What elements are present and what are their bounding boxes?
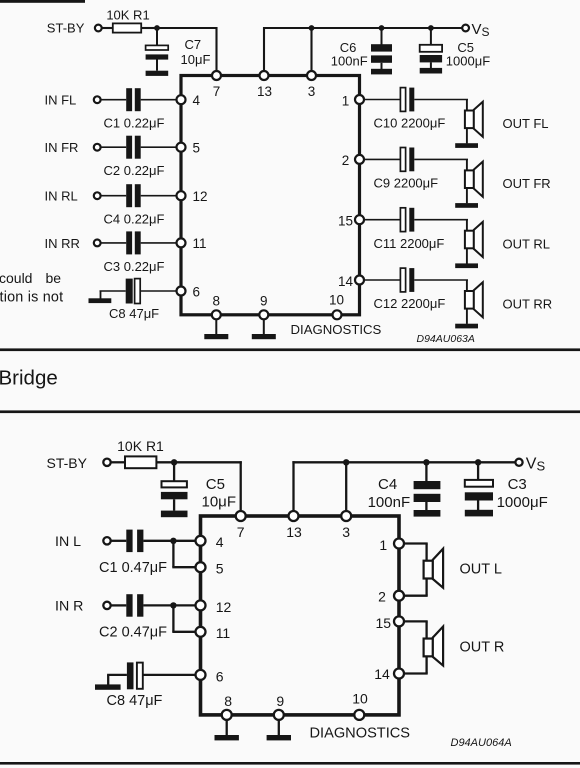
section divider rule upper (0, 348, 580, 351)
pin 4 (bridge left) (196, 536, 206, 546)
pin 10 (bottom) (333, 310, 342, 319)
svg-text:5: 5 (216, 561, 224, 577)
pin 1 (bridge right) (394, 539, 404, 549)
pin 3 (bridge top) (341, 511, 351, 521)
capacitor C5 negative plate (bridge) (161, 492, 188, 499)
terminal IN R (103, 602, 110, 609)
capacitor C4 ground stub (bridge) (425, 502, 427, 510)
svg-text:10K R1: 10K R1 (117, 438, 164, 454)
capacitor C3 stub (bridge) (477, 462, 479, 480)
svg-text:3: 3 (308, 84, 316, 99)
svg-text:10K R1: 10K R1 (106, 8, 149, 23)
svg-text:10: 10 (352, 690, 368, 706)
svg-text:6: 6 (193, 284, 201, 299)
junction ST-BY/C7 node (154, 25, 160, 31)
wire junction to pin7 drop (bridge) (174, 461, 242, 463)
capacitor C2 plate 1 (126, 136, 132, 159)
svg-text:OUT L: OUT L (460, 562, 502, 578)
svg-text:C2 0.22μF: C2 0.22μF (104, 163, 165, 178)
resistor R1 (113, 23, 141, 32)
capacitor C4 plate 2 (bridge) (414, 494, 441, 502)
terminal Vs (bridge) (515, 459, 522, 466)
capacitor C5 ground stub (430, 62, 432, 68)
svg-text:C9 2200μF: C9 2200μF (374, 176, 439, 191)
svg-text:3: 3 (342, 524, 350, 540)
speaker OUT R frame (424, 639, 433, 657)
capacitor C7 ground stub (156, 60, 158, 71)
capacitor C1 plate 2 (135, 88, 141, 111)
wire ground riser C8 (100, 291, 102, 299)
svg-text:ST-BY: ST-BY (47, 20, 85, 35)
pin 3 (top) (307, 71, 316, 80)
pin 14 (bridge right) (394, 669, 404, 679)
wire Vs supply rail (312, 27, 463, 29)
wire drop to pin 7 (bridge) (240, 461, 242, 511)
speaker OUT FL frame (465, 111, 474, 129)
wire IN FR to coupling cap (101, 146, 127, 148)
svg-text:6: 6 (216, 668, 224, 684)
pin 11 (bridge left) (196, 627, 206, 637)
wire speaker drop (466, 100, 468, 144)
capacitor C6 plate 2 (371, 55, 392, 62)
svg-text:couldbe: couldbe (0, 270, 61, 286)
capacitor C10 negative plate (409, 88, 414, 112)
wire ST-BY to R1 (bridge) (111, 461, 125, 463)
capacitor C2 plate 2 (135, 136, 141, 159)
cropped page rule (top-left artifact) (0, 0, 85, 3)
svg-text:9: 9 (260, 294, 268, 309)
capacitor C3 negative plate (bridge) (465, 492, 493, 500)
wire cap to junction (143, 604, 173, 606)
svg-text:15: 15 (376, 615, 392, 631)
svg-text:C11 2200μF: C11 2200μF (374, 236, 445, 251)
wire cap to pin 5 (141, 146, 178, 148)
capacitor C11 negative plate (409, 208, 414, 232)
capacitor C12 negative plate (409, 268, 414, 292)
capacitor C3 plate 2 (135, 231, 141, 254)
svg-text:OUT FR: OUT FR (503, 176, 551, 191)
wire pin 1 to cap (364, 99, 401, 101)
svg-text:15: 15 (338, 214, 353, 229)
capacitor C1 plate 1 (bridge) (126, 530, 132, 553)
svg-text:14: 14 (338, 274, 354, 289)
wire R1 to junction (bridge) (156, 461, 174, 463)
wire cap to speaker (414, 99, 468, 101)
wire pin 14 to cap (364, 279, 401, 281)
wire cap to pin 12 (141, 195, 178, 197)
speaker OUT R cone (433, 627, 443, 666)
capacitor C7 positive plate (146, 45, 169, 50)
wire pin3 riser (bridge) (345, 462, 347, 511)
wire junction to pin 12 (173, 604, 195, 606)
pin 2 (bridge right) (394, 591, 404, 601)
wire IN RL to coupling cap (101, 195, 127, 197)
capacitor C7 stub (156, 28, 158, 45)
wire junction to pin 4 (173, 540, 195, 542)
capacitor C8 negative plate (bridge) (127, 662, 134, 689)
wire pin 9 ground stub (bridge) (278, 720, 280, 736)
capacitor C5 positive plate (420, 45, 442, 52)
pin 15 (bridge right) (394, 616, 404, 626)
pin 4 (left) (177, 95, 186, 104)
terminal IN FL (94, 96, 101, 103)
capacitor C5 positive plate (bridge) (162, 481, 187, 487)
junction above pin 3 (309, 25, 315, 31)
section divider rule lower (0, 410, 580, 413)
svg-text:C10 2200μF: C10 2200μF (374, 116, 446, 131)
svg-text:DIAGNOSTICS: DIAGNOSTICS (310, 725, 411, 741)
capacitor C12 positive plate (400, 268, 405, 292)
svg-text:2: 2 (342, 153, 350, 168)
svg-text:4: 4 (216, 534, 224, 550)
wire cap to speaker (414, 219, 468, 221)
svg-text:OUT RL: OUT RL (503, 236, 550, 251)
wire pin13 riser (bridge) (292, 461, 294, 511)
svg-text:8: 8 (213, 294, 221, 309)
terminal IN RL (94, 192, 101, 199)
wire pin 14 to speaker (404, 672, 428, 674)
svg-text:9: 9 (276, 693, 284, 709)
wire IN FL to coupling cap (101, 99, 127, 101)
svg-text:C5: C5 (206, 476, 225, 493)
pin 7 (top) (212, 71, 221, 80)
ground below pin 8 (204, 334, 228, 339)
svg-text:1000μF: 1000μF (497, 494, 548, 511)
wire speaker drop (466, 159, 468, 203)
junction ST-BY/C5 node (bridge) (171, 459, 177, 465)
ground below pin 9 (bridge) (267, 735, 291, 740)
svg-text:C7: C7 (185, 37, 202, 52)
svg-text:1000μF: 1000μF (446, 54, 490, 69)
speaker OUT RR cone (474, 282, 483, 317)
wire pin 9 ground stub (263, 319, 265, 334)
svg-text:C8 47μF: C8 47μF (107, 693, 163, 709)
pin 14 (right) (355, 276, 364, 285)
capacitor C4 plate 1 (126, 184, 132, 207)
wire Vs rail (bridge) (346, 461, 515, 463)
wire cap to pin 11 (141, 242, 178, 244)
junction IN L split (170, 538, 176, 544)
pin 7 (bridge top) (236, 511, 246, 521)
ground below OUT FR speaker (455, 203, 478, 208)
svg-text:1: 1 (379, 537, 387, 553)
ground at C8 (89, 298, 112, 303)
svg-text:IN FL: IN FL (45, 93, 77, 108)
svg-text:DIAGNOSTICS: DIAGNOSTICS (291, 322, 382, 337)
pin 13 (top) (260, 71, 269, 80)
wire pin 15 to cap (364, 219, 401, 221)
svg-text:IN RL: IN RL (45, 189, 78, 204)
ground below OUT RL speaker (455, 263, 478, 268)
terminal IN RR (94, 240, 101, 247)
svg-text:10μF: 10μF (181, 52, 211, 67)
capacitor C8 positive plate (bridge) (137, 663, 143, 689)
speaker OUT FR cone (474, 162, 483, 197)
capacitor C9 positive plate (400, 148, 405, 172)
svg-text:8: 8 (224, 693, 232, 709)
svg-text:ST-BY: ST-BY (47, 455, 88, 471)
capacitor C6 stub (381, 28, 383, 45)
pin 2 (right) (355, 155, 364, 164)
svg-text:14: 14 (374, 666, 390, 682)
capacitor C1 plate 1 (126, 88, 132, 111)
wire C8 to pin 6 (140, 290, 177, 292)
wire speaker vertical (bridge OUT L) (425, 544, 427, 596)
pin 9 (bottom) (259, 310, 268, 319)
pin 8 (bridge bottom) (222, 710, 232, 720)
svg-text:IN FR: IN FR (45, 140, 79, 155)
svg-text:5: 5 (193, 141, 201, 156)
wire pin 15 to speaker (404, 620, 428, 622)
wire pin3 riser (310, 28, 312, 71)
wire pin13 riser (263, 27, 265, 71)
ground below OUT FL speaker (455, 143, 478, 148)
ground below C3 (bridge) (465, 510, 493, 517)
ground below OUT RR speaker (455, 324, 478, 329)
capacitor C8 negative plate (126, 279, 133, 304)
pin 13 (bridge top) (289, 511, 299, 521)
svg-text:1: 1 (342, 93, 350, 108)
wire cap to pin 4 (141, 99, 178, 101)
wire junction drop to pin 5 (172, 541, 174, 567)
ground below C5 (bridge) (161, 511, 188, 518)
pin 9 (bridge bottom) (274, 710, 284, 720)
terminal Vs (462, 25, 469, 32)
svg-text:OUT FL: OUT FL (503, 116, 549, 131)
capacitor C8 positive plate (135, 279, 141, 304)
pin 12 (left) (177, 191, 186, 200)
capacitor C11 positive plate (400, 208, 405, 232)
pin 5 (left) (177, 143, 186, 152)
resistor R1 (bridge) (125, 456, 156, 468)
wire cap to speaker (414, 279, 468, 281)
ground below C6 (371, 69, 392, 75)
svg-text:IN R: IN R (55, 599, 83, 615)
pin 15 (right) (355, 215, 364, 224)
speaker OUT RR frame (465, 291, 474, 309)
wire ST-BY terminal to R1 (102, 27, 113, 29)
svg-text:C12 2200μF: C12 2200μF (374, 296, 446, 311)
wire junction drop to pin 11 (172, 605, 174, 631)
capacitor C1 plate 2 (bridge) (137, 530, 143, 553)
capacitor C4 plate 2 (135, 184, 141, 207)
wire speaker drop (466, 280, 468, 324)
ground below C4 (bridge) (414, 510, 441, 517)
capacitor C9 negative plate (409, 148, 414, 172)
ground below pin 8 (bridge) (215, 735, 239, 740)
speaker OUT FR frame (465, 170, 474, 188)
svg-text:C3: C3 (508, 476, 527, 493)
svg-text:OUT R: OUT R (460, 640, 505, 656)
svg-text:C1 0.22μF: C1 0.22μF (104, 116, 165, 131)
svg-text:2: 2 (378, 588, 386, 604)
capacitor C5 stub (430, 28, 432, 45)
ground below pin 9 (252, 334, 276, 339)
pin 12 (bridge left) (196, 600, 206, 610)
wire pin 1 to speaker (404, 542, 428, 544)
pin 5 (bridge left) (196, 562, 206, 572)
svg-text:C2 0.47μF: C2 0.47μF (99, 624, 167, 640)
terminal IN FR (94, 144, 101, 151)
wire ground to C8 (bridge) (107, 674, 127, 676)
wire pin 2 to speaker (404, 595, 428, 597)
wire IN RR to coupling cap (101, 242, 127, 244)
junction above C4 (bridge) (423, 459, 429, 465)
wire ground to C8 (100, 290, 126, 292)
ground below C7 (146, 71, 169, 76)
wire pin13 to pin3 link (bridge) (292, 461, 346, 463)
junction above C5 (428, 25, 434, 31)
speaker OUT L cone (433, 549, 443, 588)
junction above pin 3 (bridge) (343, 459, 349, 465)
wire cap to junction (143, 540, 173, 542)
pin 6 (bridge left) (196, 670, 206, 680)
speaker OUT RL cone (474, 222, 483, 257)
svg-text:C3 0.22μF: C3 0.22μF (104, 259, 165, 274)
capacitor C3 ground stub (bridge) (477, 501, 479, 511)
svg-text:10μF: 10μF (202, 494, 237, 511)
svg-text:VS: VS (472, 21, 490, 39)
wire speaker vertical (bridge OUT R) (425, 621, 427, 673)
wire to pin 5 (172, 566, 195, 568)
svg-text:11: 11 (193, 236, 207, 251)
svg-text:C8 47μF: C8 47μF (109, 306, 159, 321)
pin 8 (bottom) (212, 310, 221, 319)
wire pin 8 ground stub (215, 319, 217, 334)
speaker OUT RL frame (465, 231, 474, 249)
svg-text:100nF: 100nF (368, 494, 411, 511)
capacitor C5 stub (bridge) (173, 462, 175, 481)
op-amp IC U1 (quad amplifier) outline (181, 76, 360, 315)
pin 10 (bridge bottom) (354, 710, 364, 720)
junction above C3 (bridge) (475, 459, 481, 465)
capacitor C6 ground stub (381, 63, 383, 69)
capacitor C5 ground stub (bridge) (173, 499, 175, 510)
svg-text:12: 12 (216, 599, 232, 615)
capacitor C7 negative plate (146, 54, 169, 59)
wire IN R to coupling cap (111, 604, 127, 606)
terminal ST-BY (bridge) (103, 459, 110, 466)
capacitor C2 plate 1 (bridge) (126, 594, 132, 617)
wire junction to pin7 drop (157, 27, 218, 29)
svg-text:12: 12 (193, 189, 208, 204)
wire speaker drop (466, 220, 468, 264)
svg-text:VS: VS (526, 455, 546, 473)
op-amp IC U1 (bridge amplifier) outline (201, 516, 400, 715)
ground at C8 (bridge) (95, 684, 121, 689)
svg-text:IN L: IN L (55, 534, 81, 550)
svg-text:7: 7 (213, 84, 221, 99)
svg-text:4: 4 (193, 93, 201, 108)
svg-text:13: 13 (286, 524, 302, 540)
wire IN L to coupling cap (111, 540, 127, 542)
wire C8 to pin 6 (bridge) (143, 674, 195, 676)
svg-text:D94AU063A: D94AU063A (417, 333, 475, 345)
wire R1 to junction (141, 27, 157, 29)
pin 6 (left) (177, 287, 186, 296)
capacitor C4 stub (bridge) (425, 462, 427, 481)
terminal ST-BY (95, 25, 102, 32)
speaker OUT L frame (424, 561, 433, 579)
capacitor C2 plate 2 (bridge) (137, 594, 143, 617)
svg-text:Bridge: Bridge (0, 367, 58, 390)
svg-text:10: 10 (329, 293, 344, 308)
svg-text:C4: C4 (378, 476, 397, 493)
svg-text:100nF: 100nF (331, 54, 368, 69)
svg-text:C1 0.47μF: C1 0.47μF (99, 560, 167, 576)
svg-text:D94AU064A: D94AU064A (451, 737, 512, 749)
speaker OUT FL cone (474, 102, 483, 137)
capacitor C4 plate 1 (bridge) (414, 481, 441, 489)
svg-text:tion is not: tion is not (0, 290, 63, 306)
wire to pin 11 (172, 631, 195, 633)
svg-text:C4 0.22μF: C4 0.22μF (104, 212, 165, 227)
page bottom rule (0, 762, 580, 765)
capacitor C6 plate 1 (371, 44, 392, 51)
wire cap to speaker (414, 158, 468, 160)
capacitor C5 negative plate (420, 55, 442, 62)
svg-text:OUT RR: OUT RR (503, 297, 553, 312)
pin 1 (right) (355, 95, 364, 104)
wire ground riser C8 (bridge) (107, 675, 109, 685)
wire drop to pin 7 (215, 27, 217, 71)
ground below C5 (420, 68, 442, 74)
capacitor C3 plate 1 (126, 231, 132, 254)
pin 11 (left) (177, 238, 186, 247)
terminal IN L (103, 537, 110, 544)
svg-text:IN RR: IN RR (45, 236, 80, 251)
wire pin13 to pin3 top link (263, 27, 312, 29)
svg-text:7: 7 (237, 524, 245, 540)
capacitor C10 positive plate (400, 88, 405, 112)
capacitor C3 positive plate (bridge) (465, 480, 493, 487)
junction IN R split (170, 602, 176, 608)
svg-text:11: 11 (216, 625, 231, 641)
wire pin 8 ground stub (bridge) (226, 720, 228, 736)
svg-text:13: 13 (257, 84, 272, 99)
wire pin 2 to cap (364, 158, 401, 160)
junction above C6 (379, 25, 385, 31)
